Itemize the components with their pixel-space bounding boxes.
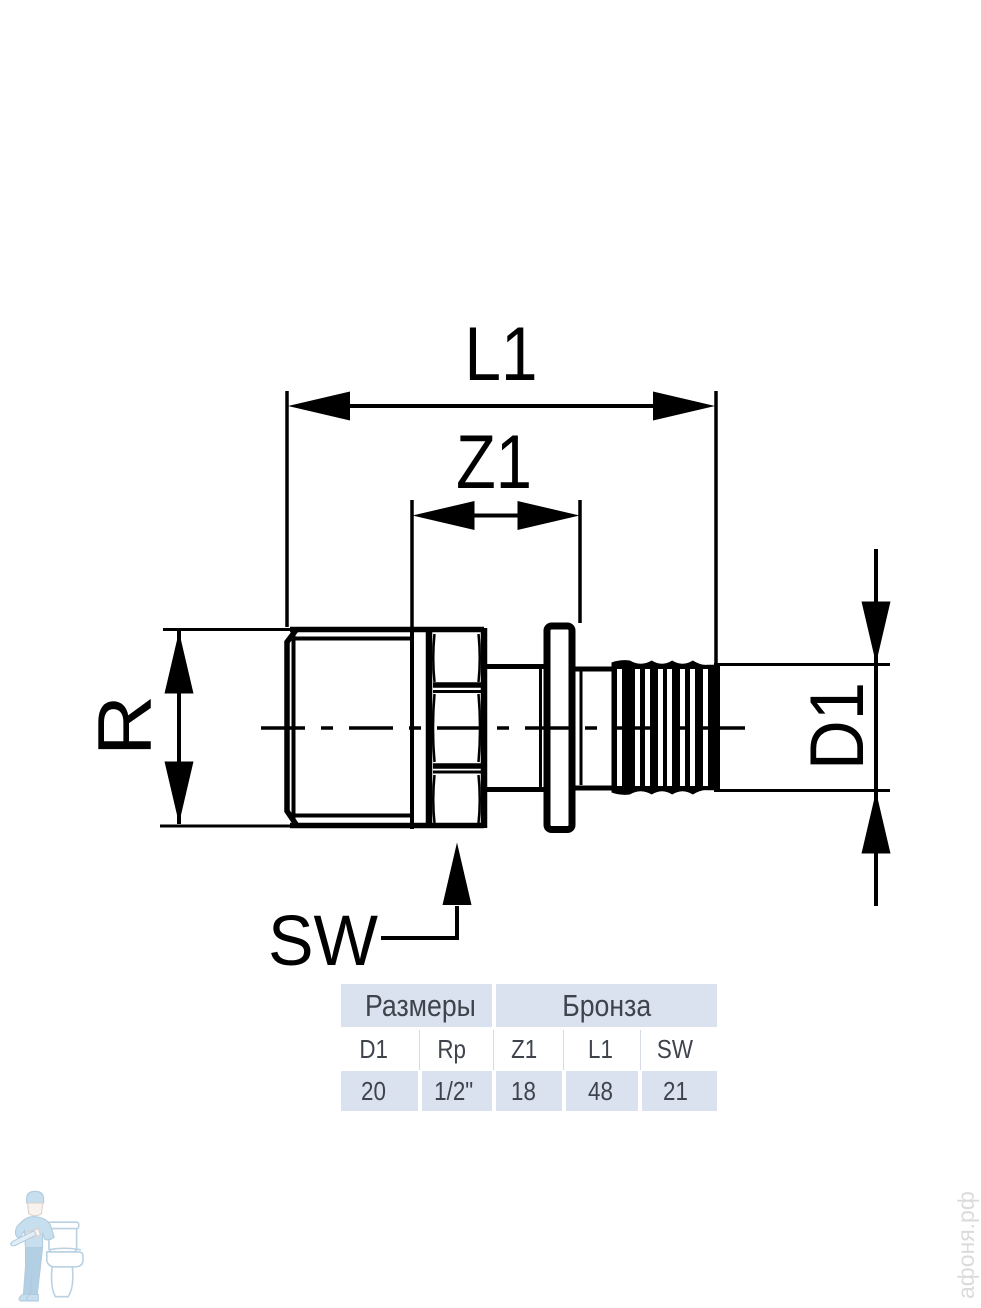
fitting: male thread body outline xyxy=(287,630,297,826)
svg-text:D1: D1 xyxy=(795,682,880,770)
wrench xyxy=(11,1231,37,1246)
svg-text:L1: L1 xyxy=(465,312,538,397)
barb white grooves xyxy=(617,669,708,786)
plumber arm + fist xyxy=(26,1229,41,1240)
values row: 20 1/2" 18 48 21 xyxy=(341,1071,717,1111)
dimension Z1 line xyxy=(470,514,522,518)
dimension R line xyxy=(177,631,181,824)
D1 extension lines xyxy=(719,663,890,666)
data table xyxy=(341,984,717,1111)
plumber head xyxy=(28,1203,43,1216)
barbed section (black silhouette) xyxy=(612,660,716,795)
thread inner vertical (chamfer face) xyxy=(292,633,296,822)
neck end face xyxy=(539,668,542,788)
watermark: plumber with toilet (bottom-left) xyxy=(0,1186,100,1308)
svg-text:R: R xyxy=(83,695,168,756)
cylinder after flange xyxy=(575,667,613,672)
watermark text афоня.рф (rotated, bottom-right) xyxy=(956,1195,976,1299)
svg-text:SW: SW xyxy=(268,902,378,981)
header row: Размеры / Бронза xyxy=(341,984,717,1027)
cylinder left end face xyxy=(580,670,583,785)
Z1 extension lines xyxy=(410,500,414,627)
neck between hex and flange xyxy=(487,664,546,669)
SW leader line and arrow xyxy=(381,906,457,938)
plumber cap xyxy=(27,1191,44,1203)
hex facet divider lines xyxy=(433,682,481,688)
plumber body/jacket xyxy=(15,1217,54,1248)
column header row: D1 Rp Z1 L1 SW xyxy=(341,1030,717,1070)
barb end face xyxy=(714,663,720,792)
toilet tank xyxy=(49,1226,77,1252)
hex nut xyxy=(426,628,433,828)
svg-text:Z1: Z1 xyxy=(456,420,532,505)
dimension L1 line xyxy=(350,404,654,408)
hex facet arcs xyxy=(433,634,434,682)
dimension D1 line xyxy=(874,549,878,906)
thread end face xyxy=(410,627,414,829)
centerline (dash-dot) xyxy=(261,726,745,730)
flange collar xyxy=(547,626,572,830)
toilet bowl xyxy=(47,1252,83,1267)
thread root lines xyxy=(295,637,411,641)
legs xyxy=(23,1248,42,1295)
L1 extension lines xyxy=(285,391,289,627)
boots xyxy=(19,1295,31,1301)
R extension lines xyxy=(163,628,293,631)
